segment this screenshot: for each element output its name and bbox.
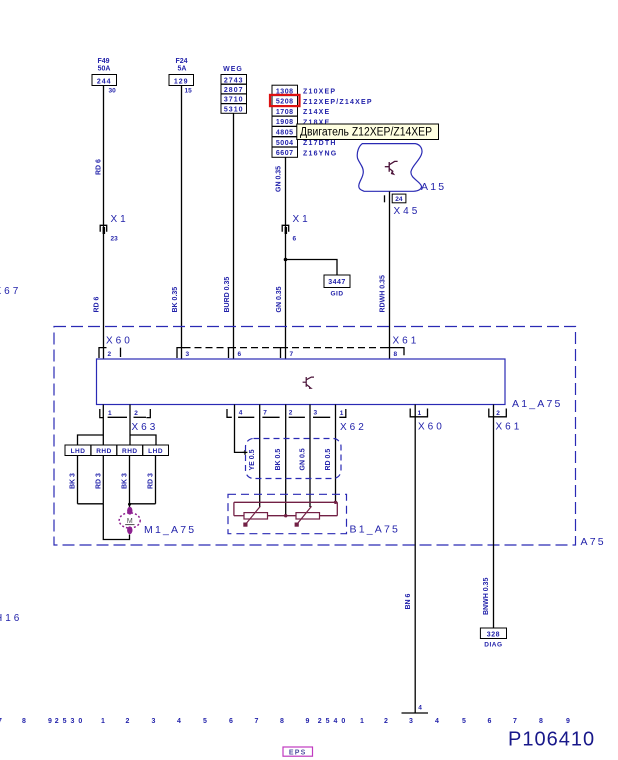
svg-text:A1_A75: A1_A75 (512, 398, 563, 410)
svg-text:2530: 2530 (55, 718, 87, 725)
svg-text:LHD: LHD (148, 448, 163, 455)
motor M1_A75 (119, 507, 140, 534)
wire WEG to X60 pin 6 (233, 113, 235, 359)
svg-text:B1_A75: B1_A75 (350, 524, 401, 536)
svg-text:8: 8 (280, 718, 284, 725)
X63 pin 1 (100, 409, 127, 418)
fuse F24 label (175, 58, 187, 73)
svg-text:H16: H16 (0, 613, 22, 624)
svg-text:7: 7 (255, 718, 259, 725)
svg-text:1: 1 (101, 718, 105, 725)
svg-text:5310: 5310 (224, 106, 244, 113)
svg-text:4: 4 (418, 705, 422, 712)
potentiometer track 1 (244, 513, 268, 519)
svg-text:X63: X63 (132, 422, 159, 433)
svg-text:5: 5 (462, 718, 466, 725)
svg-text:RD 6: RD 6 (94, 296, 101, 312)
svg-text:X1: X1 (111, 214, 129, 225)
svg-text:244: 244 (97, 79, 112, 86)
transistor symbol inside A1_A75 (303, 377, 314, 389)
svg-text:BK 3: BK 3 (122, 473, 129, 489)
mid junction dot (284, 514, 287, 517)
svg-text:RDWH 0.35: RDWH 0.35 (380, 275, 387, 312)
svg-text:Z17DTH: Z17DTH (303, 140, 337, 147)
potentiometer track 2 (296, 513, 320, 519)
pin 7 (281, 348, 294, 358)
pin 3 (177, 348, 190, 358)
wire branch pin2 to LHD (130, 435, 156, 445)
svg-text:Z10XEP: Z10XEP (303, 89, 336, 96)
wire GN pin3 (309, 405, 311, 508)
svg-text:GN 0.35: GN 0.35 (276, 286, 283, 312)
svg-text:2: 2 (134, 410, 138, 417)
DIAG box 328 (480, 628, 506, 649)
svg-text:3: 3 (186, 351, 190, 358)
rail junction dot (334, 501, 337, 504)
svg-text:RHD: RHD (96, 448, 112, 455)
wire F24 to X60 pin 3 (181, 86, 183, 360)
svg-text:8: 8 (539, 718, 543, 725)
svg-text:1708: 1708 (276, 109, 294, 116)
svg-text:8: 8 (22, 718, 26, 725)
svg-text:X61: X61 (496, 422, 523, 433)
svg-text:M1_A75: M1_A75 (144, 524, 196, 536)
svg-text:X60: X60 (418, 422, 445, 433)
svg-text:2540: 2540 (318, 718, 350, 725)
svg-text:5A: 5A (178, 66, 187, 73)
svg-text:9: 9 (48, 718, 52, 725)
svg-text:F24: F24 (175, 58, 187, 65)
svg-text:P106410: P106410 (508, 728, 595, 750)
svg-text:2: 2 (289, 410, 293, 417)
wire to motor bottom (103, 504, 129, 540)
wire X62 pin4 to sheath (235, 405, 246, 453)
svg-text:50A: 50A (98, 66, 111, 73)
svg-text:1: 1 (108, 410, 112, 417)
wire RD pin1 (335, 405, 337, 503)
svg-text:24: 24 (395, 196, 403, 203)
svg-text:GID: GID (330, 291, 343, 298)
engine wire-number stack 1308..6607 (272, 85, 298, 157)
wire X63 pin2 (129, 405, 131, 446)
svg-text:1: 1 (417, 410, 421, 417)
svg-text:A75: A75 (581, 536, 606, 548)
fuse F49 label (97, 58, 110, 73)
wire branch pin1 to LHD (78, 435, 104, 445)
svg-text:5208: 5208 (276, 99, 294, 106)
potentiometer wiper 1 (243, 506, 260, 526)
svg-text:15: 15 (185, 88, 193, 95)
engine A15 torn-box outline (357, 144, 422, 192)
svg-text:5004: 5004 (276, 140, 294, 147)
X62 pin 1 (339, 409, 346, 417)
svg-text:F49: F49 (97, 58, 109, 65)
sheath connection cross (243, 450, 248, 455)
svg-text:RHD: RHD (122, 448, 138, 455)
svg-text:X45: X45 (394, 206, 421, 217)
GID box 3447 (324, 275, 350, 298)
wire F49 to X60 pin 2 (103, 86, 105, 360)
svg-text:6607: 6607 (276, 150, 294, 157)
pin 8 X61 (386, 348, 405, 358)
pin 6 (229, 348, 242, 358)
svg-text:3: 3 (409, 718, 413, 725)
svg-text:X1: X1 (293, 214, 311, 225)
join wires pair left (78, 503, 104, 505)
svg-text:9: 9 (566, 718, 570, 725)
wire BK pin2 (285, 405, 287, 516)
svg-text:Z16YNG: Z16YNG (303, 151, 337, 158)
svg-text:A15: A15 (421, 181, 446, 193)
svg-text:EPS: EPS (289, 749, 307, 756)
wire A15 to X61 pin 8 (389, 192, 391, 360)
svg-text:7: 7 (263, 410, 267, 417)
svg-text:30: 30 (109, 88, 117, 95)
svg-text:Z12XEP/Z14XEP: Z12XEP/Z14XEP (303, 99, 373, 106)
svg-text:GN 0.5: GN 0.5 (300, 448, 307, 470)
svg-text:328: 328 (487, 631, 500, 638)
svg-text:129: 129 (174, 79, 189, 86)
svg-text:BK 0.5: BK 0.5 (275, 449, 282, 471)
wire BNWH 0.35 (493, 405, 495, 629)
svg-text:3: 3 (152, 718, 156, 725)
svg-text:Z14XE: Z14XE (303, 109, 330, 116)
svg-text:GN 0.35: GN 0.35 (276, 166, 283, 192)
svg-text:4: 4 (177, 718, 181, 725)
motor wires below variant boxes (77, 456, 79, 504)
wire engine stack to X60 pin 7 (285, 157, 287, 359)
svg-text:BK 0.35: BK 0.35 (172, 287, 179, 313)
A75 dashed enclosure (54, 327, 576, 546)
svg-text:X61: X61 (393, 336, 420, 347)
wire X63 pin1 (102, 405, 104, 446)
svg-text:X62: X62 (340, 422, 367, 433)
svg-text:6: 6 (238, 351, 242, 358)
svg-text:BK 3: BK 3 (70, 473, 77, 489)
sensor supply rail (234, 502, 337, 515)
svg-text:X67: X67 (0, 286, 21, 297)
svg-text:2807: 2807 (224, 87, 244, 94)
wire branch to GID (286, 260, 338, 276)
junction node on GN wire (284, 258, 288, 262)
X62 pin 7 (262, 410, 279, 418)
svg-text:BNWH 0.35: BNWH 0.35 (483, 578, 490, 615)
svg-text:2: 2 (126, 718, 130, 725)
svg-text:1: 1 (360, 718, 364, 725)
svg-text:RD 3: RD 3 (148, 473, 155, 489)
fuse F49 box 244 (92, 75, 117, 95)
svg-text:2: 2 (496, 410, 500, 417)
EPS stamp box (283, 747, 313, 756)
svg-text:BURD 0.35: BURD 0.35 (224, 277, 231, 313)
svg-text:7: 7 (513, 718, 517, 725)
X62 pin 3 (313, 410, 330, 418)
X63 pin 2 (134, 409, 151, 418)
pin 2 X60 (99, 348, 121, 358)
red highlight around 5208 (270, 95, 300, 106)
svg-text:LHD: LHD (71, 448, 86, 455)
svg-text:2743: 2743 (224, 77, 244, 84)
X60 pin 1 (bottom) (410, 409, 427, 417)
connector X1 pin 6 on GN wire (282, 214, 311, 243)
wire BN 6 (414, 405, 416, 714)
transistor symbol inside A15 (385, 161, 398, 175)
svg-text:2: 2 (384, 718, 388, 725)
X62 pin 2 (289, 410, 305, 418)
svg-text:5: 5 (203, 718, 207, 725)
svg-text:DIAG: DIAG (484, 642, 502, 649)
X61 pin 2 (bottom) (489, 409, 507, 417)
svg-text:X60: X60 (106, 336, 133, 347)
svg-text:6: 6 (229, 718, 233, 725)
svg-text:3447: 3447 (328, 279, 346, 286)
svg-text:1: 1 (340, 410, 344, 417)
svg-text:6: 6 (488, 718, 492, 725)
svg-text:WEG: WEG (223, 66, 243, 73)
svg-text:4: 4 (239, 410, 243, 417)
svg-text:BN 6: BN 6 (405, 593, 412, 609)
svg-text:YE 0.5: YE 0.5 (249, 449, 256, 470)
engine code labels (303, 89, 373, 158)
wire BN 6 end tick (402, 712, 429, 714)
svg-text:RD 3: RD 3 (95, 473, 102, 489)
wire to motor top (129, 504, 131, 508)
svg-text:4805: 4805 (276, 130, 294, 137)
join wires pair right (130, 503, 156, 505)
X62 pin 4 (227, 409, 254, 417)
svg-text:M: M (127, 518, 133, 525)
B1_A75 dashed enclosure (228, 494, 347, 533)
svg-text:7: 7 (0, 718, 2, 725)
ECU module A1_A75 box (97, 359, 506, 405)
svg-text:3: 3 (314, 410, 318, 417)
cable sheath dashed box (246, 439, 342, 479)
fuse F24 box 129 (169, 75, 194, 95)
svg-text:2: 2 (108, 351, 112, 358)
svg-text:3710: 3710 (224, 97, 244, 104)
svg-text:Двигатель Z12XEP/Z14XEP: Двигатель Z12XEP/Z14XEP (300, 127, 432, 139)
WEG wire-number stack 2743/2807/3710/5310 (221, 75, 247, 114)
svg-text:8: 8 (394, 351, 398, 358)
svg-text:23: 23 (111, 236, 119, 243)
tooltip Двигатель Z12XEP/Z14XEP (297, 124, 439, 140)
grid ruler numbers (0, 718, 570, 725)
pin box 24 at A15 (385, 194, 406, 203)
wire YE pin7 (259, 405, 261, 508)
potentiometer wiper 2 (295, 506, 312, 526)
svg-text:1908: 1908 (276, 119, 294, 126)
svg-text:7: 7 (290, 351, 294, 358)
svg-text:RD 6: RD 6 (96, 159, 103, 175)
connector X1 pin 23 on F49 wire (100, 214, 129, 243)
svg-text:6: 6 (293, 236, 297, 243)
svg-text:RD 0.5: RD 0.5 (325, 449, 332, 471)
svg-text:4: 4 (435, 718, 439, 725)
LHD/RHD variant boxes (65, 445, 169, 456)
top pin rail dashes (184, 347, 386, 349)
svg-text:9: 9 (306, 718, 310, 725)
